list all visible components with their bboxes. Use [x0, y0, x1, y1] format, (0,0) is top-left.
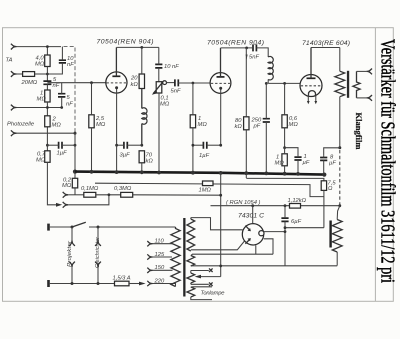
svg-text:Verstärker für Schmaltonfilm 3: Verstärker für Schmaltonfilm 31611/12 pr…: [377, 39, 399, 283]
V2 anode top run: [221, 47, 253, 49]
svg-text:5nF: 5nF: [249, 55, 259, 61]
V3 grid wire: [268, 82, 300, 84]
resistor R12 80kOhm: [244, 117, 249, 130]
long line winding to choke: [191, 265, 337, 267]
node R2/J3: [46, 106, 49, 109]
wire J6 to riser: [68, 195, 109, 205]
svg-text:Projektor: Projektor: [67, 240, 73, 267]
svg-text:MΩ: MΩ: [52, 123, 62, 129]
V4 anode 1 (diagonal): [245, 226, 250, 231]
svg-text:MΩ: MΩ: [289, 122, 299, 128]
HV secondary winding: [187, 219, 195, 251]
winding D bottom lead: [191, 297, 212, 300]
C8 left lead: [193, 144, 204, 146]
P1 wiper arrow: [153, 81, 164, 94]
wire fuse to plug arrow: [129, 283, 140, 285]
output transformer primary winding: [335, 71, 345, 97]
R8 top lead: [91, 83, 93, 115]
V4 cathode lead: [264, 231, 285, 233]
resistor R9 20kOhm: [139, 74, 144, 89]
gleichrichter connector upper horn: [95, 240, 101, 246]
node projektor bottom: [71, 282, 74, 285]
resistor R2 1MOhm: [45, 90, 50, 102]
R13 top lead: [284, 83, 286, 114]
V2 anode plate: [217, 76, 225, 78]
resistor R4 0,7MOhm: [45, 151, 50, 163]
node V3 grid branch: [283, 82, 286, 85]
V3 anode lead: [310, 48, 312, 79]
V3 filament arch: [309, 91, 316, 96]
screen line y183: [95, 183, 324, 196]
bus start node: [73, 170, 77, 174]
resistor R10 70kOhm: [139, 151, 144, 163]
svg-text:µF: µF: [329, 161, 336, 167]
capacitor C10 250pF plates: [263, 119, 270, 122]
svg-text:1,12kΩ: 1,12kΩ: [288, 198, 307, 204]
capacitor C6 10nF (on pot line): [155, 64, 162, 68]
filament winding B: [187, 256, 195, 267]
V4 filament return hook: [256, 239, 273, 254]
wire 220 tap to primary: [153, 284, 176, 287]
node primary/8uF corner: [338, 146, 341, 149]
resistor R16 7,5Ohm: [321, 181, 326, 191]
plug arrow into 220 tap: [139, 282, 146, 286]
secondary bottom lead: [357, 97, 367, 99]
node V1 cathode row: [115, 144, 118, 147]
svg-text:1µF: 1µF: [199, 153, 210, 159]
shield dashed line (input screening): [64, 47, 76, 131]
power transformer primary winding: [171, 227, 180, 287]
L2 bottom lead: [267, 79, 269, 83]
node heater return: [284, 226, 287, 229]
resistor R8 2,5MOhm: [89, 115, 94, 128]
wire J5 row to right: [68, 194, 84, 196]
wire 110 tap: [153, 243, 173, 245]
wire R6 to node: [96, 194, 121, 196]
C10 bottom lead to bus: [265, 122, 267, 173]
svg-text:MΩ: MΩ: [37, 97, 47, 103]
node B+ choke: [338, 204, 341, 207]
inductor L1 (coil loops): [142, 89, 147, 146]
svg-text:Photozelle: Photozelle: [7, 122, 35, 128]
node C8 left: [192, 144, 195, 147]
arrow tap into winding B/C: [200, 276, 221, 278]
node projektor top: [97, 226, 100, 229]
V4 anode lead lower (diagonal): [191, 241, 245, 250]
node V2 grid leak: [192, 82, 195, 85]
V2 grid (dashed): [211, 82, 230, 84]
jack J1 (TA input top): [11, 44, 17, 50]
svg-text:nF: nF: [67, 62, 74, 68]
R12 bottom lead to bus: [245, 130, 247, 173]
resistor R6 0,1MOhm (series row): [84, 192, 96, 197]
bus dot R12: [244, 171, 248, 175]
svg-text:Tonlampe: Tonlampe: [201, 291, 226, 297]
svg-text:TA: TA: [6, 58, 13, 64]
tap jack 110: [147, 241, 152, 246]
C1 top lead: [61, 47, 63, 61]
wire C7 to V2 grid: [178, 82, 210, 84]
C5 right lead: [127, 144, 142, 146]
svg-text:pF: pF: [253, 124, 261, 130]
jack J3 (Photozelle top): [11, 105, 17, 111]
current arrow on R12 line: [246, 55, 248, 60]
projektor branch lower lead: [71, 267, 73, 283]
heater return line: [285, 227, 324, 229]
svg-text:1µF: 1µF: [57, 151, 68, 157]
svg-text:1MΩ: 1MΩ: [199, 188, 212, 194]
svg-text:Ω: Ω: [328, 186, 333, 192]
R11 bottom lead to bus: [192, 128, 194, 173]
bus dot V2 cathode riser: [219, 171, 223, 175]
output transformer primary lead: [339, 48, 341, 72]
P1 arrow head: [152, 90, 158, 95]
minus bus line: [75, 172, 324, 175]
svg-text:MΩ: MΩ: [275, 161, 285, 167]
svg-text:MΩ: MΩ: [62, 183, 72, 189]
P1 bottom lead to bus: [158, 93, 160, 172]
svg-text:70504(REN 904): 70504(REN 904): [207, 40, 264, 47]
C3 bottom lead: [61, 97, 63, 108]
node top-left dot: [46, 45, 49, 48]
V1 anode lead: [115, 47, 117, 76]
resistor R15 1MOhm (series h): [203, 181, 214, 186]
node C8 right: [219, 144, 222, 147]
C4 left lead: [47, 144, 58, 146]
output jack lower: [366, 95, 372, 101]
svg-text:MΩ: MΩ: [36, 158, 46, 164]
R11 top lead: [192, 83, 194, 115]
node C4 rail: [74, 144, 77, 147]
resistor R7 0,3MOhm (series row): [121, 192, 133, 197]
secondary top lead: [357, 70, 367, 72]
resistor R3 2MOhm: [45, 116, 50, 127]
node row: [108, 193, 111, 196]
node anode run: [140, 46, 143, 49]
capacitor C7 5nF plates (series): [175, 79, 178, 86]
node anode run V2: [245, 47, 248, 50]
inductor L2 (coil loops): [268, 56, 273, 79]
svg-text:( RGN 1054 ): ( RGN 1054 ): [226, 200, 261, 206]
node riser row2: [219, 194, 222, 197]
wire corner to C12: [324, 148, 340, 156]
C6 bottom lead: [158, 68, 160, 82]
winding D top lead: [191, 286, 212, 288]
mains terminal top: [47, 224, 50, 231]
V2 cathode dot: [219, 87, 222, 90]
C11 bottom lead to bus: [297, 160, 299, 174]
winding C (rect filament): [187, 273, 195, 283]
shield rail solid lower part: [74, 131, 76, 172]
bus dot C11: [296, 172, 300, 176]
V1 cathode dot: [115, 86, 118, 89]
R9 top lead: [141, 47, 143, 74]
R10 bottom lead to bus: [141, 163, 143, 172]
vertical rail x=47 top: [46, 47, 48, 55]
wire R7 row continues right: [133, 194, 221, 196]
C10 top lead: [265, 83, 267, 118]
arrow into jack J6: [56, 203, 62, 207]
node riser crossing: [219, 265, 222, 268]
wire R4 down to lower jack: [47, 162, 57, 205]
output transformer primary bottom lead: [339, 97, 341, 148]
R14 bottom lead to bus: [284, 166, 286, 174]
R12 top lead: [245, 48, 247, 117]
gleichrichter branch lower lead: [97, 267, 99, 283]
jack J6 (output lower): [63, 202, 69, 208]
output transformer core: [347, 71, 349, 98]
V4 anode 2 (diagonal): [245, 239, 250, 244]
capacitor C9 5nF plates (series): [253, 44, 256, 51]
wire 150 tap: [153, 269, 173, 271]
V3 filament lead pins: [308, 96, 316, 101]
R13 bottom lead: [284, 128, 286, 148]
svg-text:kΩ: kΩ: [235, 124, 243, 130]
svg-text:nF: nF: [53, 83, 60, 89]
V1 anode plate: [112, 75, 120, 77]
power transformer core: [183, 218, 185, 297]
choke L3 top lead: [337, 206, 340, 220]
C6 top lead: [158, 47, 160, 64]
arrow tap head: [195, 275, 201, 279]
projektor connector lower horn: [69, 262, 75, 268]
C5 left lead: [117, 144, 124, 146]
svg-text:MΩ: MΩ: [160, 102, 170, 108]
output jack upper: [366, 69, 372, 75]
tap jack 220: [147, 281, 152, 286]
wire rail to R4: [46, 145, 48, 151]
wire V1 cathode to bus: [116, 145, 118, 172]
tube V1 envelope: [106, 72, 127, 93]
V1 anode top run: [116, 46, 158, 48]
svg-text:74301 C: 74301 C: [238, 213, 264, 220]
capacitor C11 1uF (bias) plates: [294, 157, 301, 160]
V4 anode lead upper: [191, 218, 243, 230]
svg-text:10 nF: 10 nF: [164, 64, 179, 70]
svg-text:MΩ: MΩ: [96, 122, 106, 128]
svg-text:µF: µF: [303, 160, 310, 166]
svg-text:1,5/3 A: 1,5/3 A: [113, 276, 131, 282]
svg-text:70504(REN 904): 70504(REN 904): [97, 39, 154, 46]
grid wire tube V1: [47, 82, 106, 84]
node 250pF tap: [265, 82, 268, 85]
bus dot R10: [140, 170, 144, 174]
fuse F1 1,5/3A: [115, 281, 130, 286]
resistor R17 1,12kOhm (series h): [290, 204, 301, 209]
mains top wire: [50, 226, 72, 228]
svg-text:kΩ: kΩ: [146, 159, 154, 165]
capacitor C3 5nF (shunt): [58, 94, 65, 97]
node L1 3uF row: [140, 144, 143, 147]
winding D (Tonlampe): [187, 287, 195, 297]
pin x mark 1: [209, 268, 213, 272]
V4 anode 1 arrowhead: [248, 228, 251, 231]
potentiometer P1 0,1MOhm body: [156, 82, 162, 93]
wire 125 tap: [153, 256, 173, 258]
bus dot R8: [90, 170, 94, 174]
wire J1 to node: [17, 46, 62, 48]
bus dot P1: [157, 171, 161, 175]
V2 anode lead: [220, 48, 222, 77]
R16 bottom lead: [323, 190, 325, 227]
resistor R5 0,2MOhm: [72, 178, 77, 188]
V3 anode top run: [311, 47, 340, 49]
wire J3: [17, 107, 62, 109]
P1 wiper terminal circle: [163, 81, 167, 85]
node C3/J3: [60, 106, 63, 109]
jack J4 (Photozelle bottom): [11, 130, 17, 136]
C13 bottom lead: [284, 221, 286, 265]
C11 top lead: [285, 148, 298, 157]
node cathode/C13: [284, 230, 287, 233]
node B+ 6uF: [284, 204, 287, 207]
bus dot R11: [191, 171, 195, 175]
R8 bottom lead to bus: [91, 128, 93, 172]
winding B top lead (long): [190, 255, 192, 257]
title column divider: [374, 28, 376, 302]
mains bottom wire: [50, 283, 115, 285]
wire bus node to R5: [74, 172, 76, 179]
gleichrichter branch upper lead: [97, 227, 99, 240]
svg-text:0,1MΩ: 0,1MΩ: [81, 186, 99, 192]
svg-text:0,3MΩ: 0,3MΩ: [114, 186, 132, 192]
C1 bottom lead: [47, 63, 62, 74]
node bias junction: [283, 146, 286, 149]
C4 right lead: [62, 144, 75, 146]
projektor connector upper horn: [69, 240, 75, 246]
wire R2 to J3 rail: [46, 102, 48, 145]
capacitor C2 5nF (series in rail): [43, 81, 51, 84]
choke L3 winding: [332, 220, 342, 253]
capacitor C1 10nF (shunt): [59, 60, 66, 63]
svg-text:kΩ: kΩ: [131, 82, 139, 88]
resistor R11 1MOhm (grid leak V2): [190, 115, 195, 128]
tube V3 envelope: [300, 75, 322, 97]
switch S1 pivot dot: [71, 226, 74, 229]
node rail 1uF: [46, 144, 49, 147]
wire wiper to C7: [167, 82, 175, 84]
wire C2 to R2: [46, 84, 48, 90]
jack J2 (TA input bottom): [11, 71, 17, 77]
capacitor C13 6uF plates: [281, 218, 288, 221]
HV secondary top lead: [190, 218, 192, 219]
capacitor C5 3uF plates: [124, 142, 127, 149]
bus dot R14: [283, 172, 287, 176]
jack J5 (output upper): [63, 192, 69, 198]
wire 20MOhm to node A: [35, 73, 48, 75]
svg-text:5nF: 5nF: [171, 89, 181, 95]
V4 top lead: [252, 206, 254, 224]
wire C9 to L2: [256, 48, 268, 57]
projektor branch upper lead: [71, 227, 73, 240]
V4 anode 2 arrowhead: [248, 238, 251, 241]
dashed feed to choke line: [339, 150, 341, 206]
bus end blob: [322, 173, 326, 177]
node A dot: [46, 73, 49, 76]
node gleichrichter bottom: [97, 282, 100, 285]
wire R5 to J5 row: [74, 188, 76, 195]
wire V2 riser below bus: [220, 173, 222, 277]
svg-text:71403(RE 604): 71403(RE 604): [302, 40, 350, 47]
svg-text:20: 20: [130, 76, 138, 82]
switch S1 blade: [72, 222, 86, 227]
svg-text:6µF: 6µF: [291, 219, 302, 225]
mains terminal bottom: [47, 280, 50, 287]
tap jack 150: [147, 268, 152, 273]
drawing frame border: [3, 28, 394, 302]
mains top wire after switch: [89, 226, 176, 228]
C12 leads: [323, 156, 325, 174]
bus dot V1 cathode: [115, 170, 119, 174]
svg-text:3µF: 3µF: [120, 153, 131, 159]
resistor 20MOhm (series): [23, 72, 35, 77]
bus dot C10: [264, 172, 268, 176]
wire J4 to shield rail: [17, 132, 76, 134]
svg-text:MΩ: MΩ: [35, 62, 45, 68]
V4 cathode ring: [259, 231, 264, 236]
svg-text:MΩ: MΩ: [198, 122, 208, 128]
winding C bottom lead with x pin: [191, 283, 209, 284]
C13 top lead: [284, 206, 286, 218]
V2 cathode lead: [220, 90, 222, 146]
capacitor C8 1uF plates: [203, 142, 206, 149]
C3 top lead: [61, 83, 63, 94]
output transformer secondary winding: [353, 71, 360, 98]
C8 right lead: [207, 144, 221, 146]
wire J2 to resistor: [17, 73, 23, 75]
svg-text:20MΩ: 20MΩ: [21, 80, 38, 86]
svg-text:Gleichrichter: Gleichrichter: [95, 236, 101, 268]
gleichrichter connector lower horn: [95, 262, 101, 268]
svg-text:Klangfilm: Klangfilm: [354, 113, 363, 150]
V3 anode plate: [307, 77, 316, 79]
V1 cathode lead: [116, 89, 118, 145]
winding C top lead with x pin: [191, 271, 209, 274]
node grid rail 2,5M: [90, 81, 93, 84]
resistor R13 0,6MOhm: [282, 115, 287, 128]
capacitor C4 1uF (series) plates: [59, 142, 62, 149]
tube V2 envelope: [210, 73, 231, 94]
wire R1 to node A: [46, 67, 48, 81]
choke L3 bottom lead: [336, 252, 338, 266]
tap jack 125: [147, 254, 152, 259]
choke L3 core bar: [329, 221, 331, 248]
node B+ rect top: [251, 204, 254, 207]
resistor R14 1MOhm (bias): [282, 154, 287, 166]
svg-text:nF: nF: [66, 102, 73, 108]
filament winding feed line: [191, 254, 273, 255]
resistor R1 4,0MOhm: [45, 55, 50, 67]
V3 filament pin arrows: [307, 101, 317, 104]
V1 grid (dashed): [107, 82, 127, 84]
B+ line RGN: [211, 205, 340, 207]
V3 grid (dashed): [301, 85, 322, 87]
R14 top lead: [284, 148, 286, 154]
feed line y178: [246, 173, 324, 181]
pin x mark 2: [209, 282, 213, 286]
capacitor C12 8uF plates: [320, 158, 327, 161]
node J4 rail: [74, 132, 77, 135]
rectifier tube V4 envelope: [242, 224, 263, 245]
